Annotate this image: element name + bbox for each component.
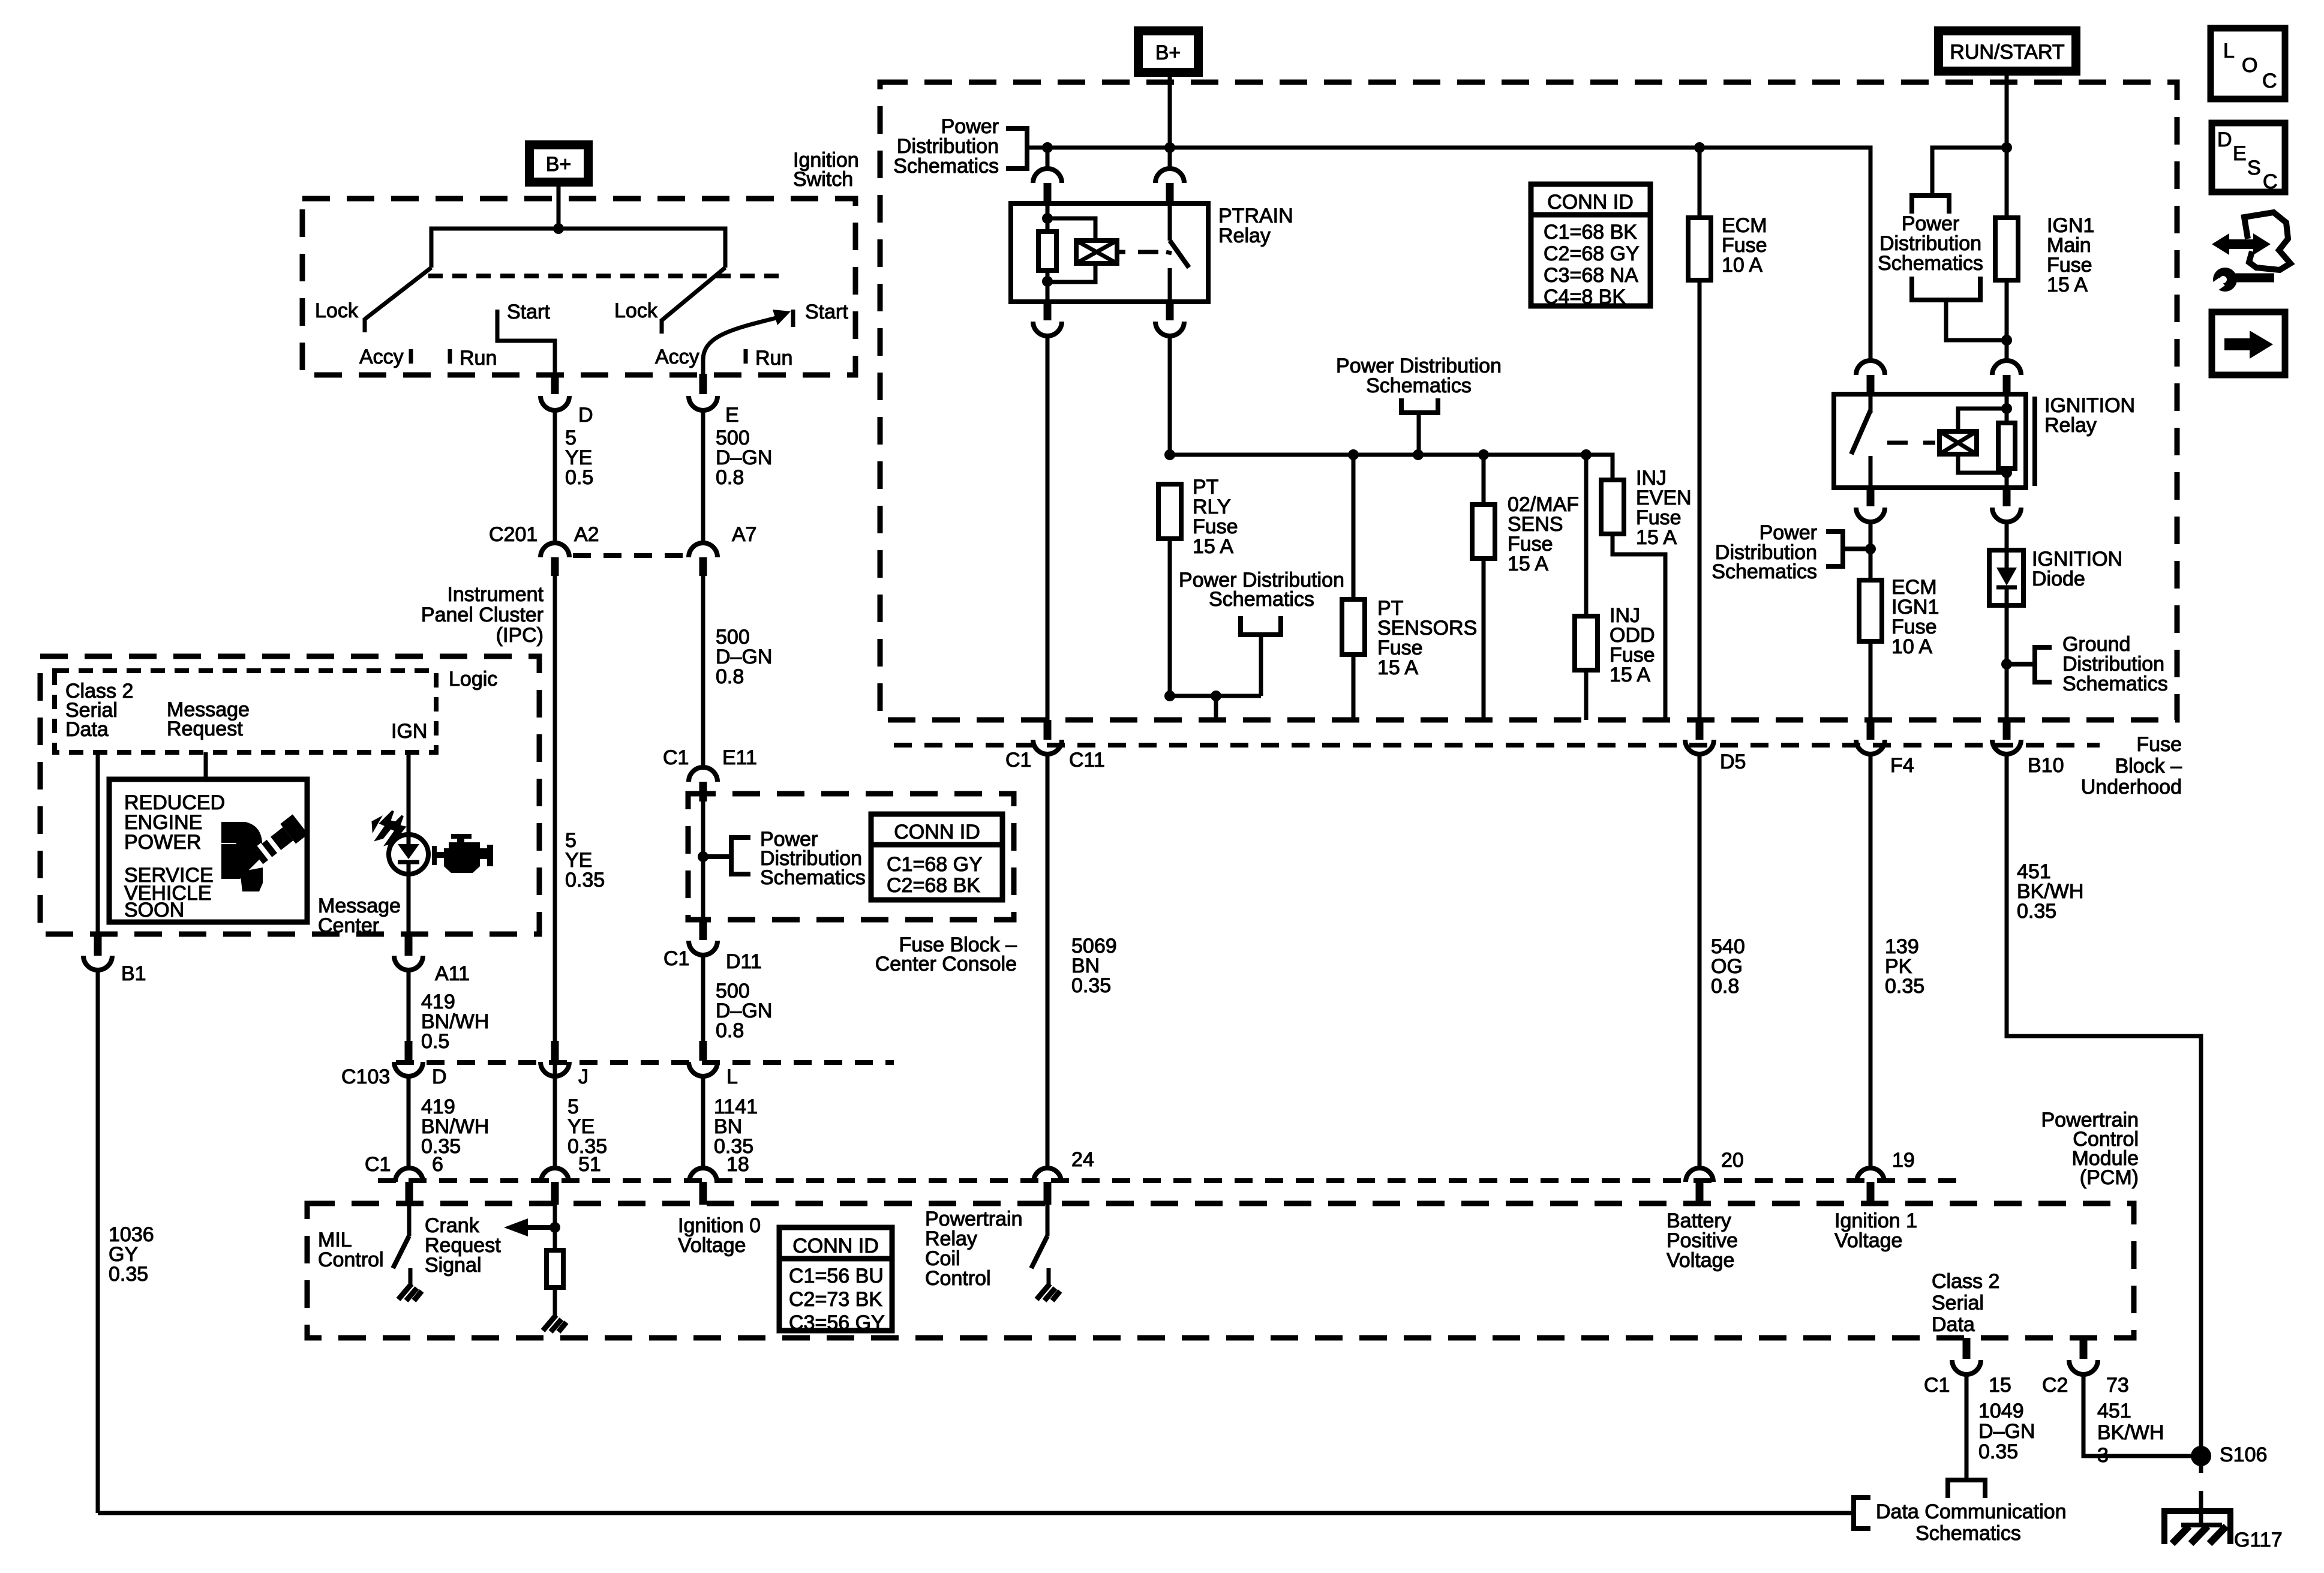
bus wire B+ feed: [1027, 148, 1870, 361]
PCM pin 15 stub: [1963, 1338, 1971, 1359]
powertrain relay coil control ground: [1047, 1268, 1051, 1285]
contact tick Accy left: [409, 349, 413, 364]
wire bus to PTRAIN switch pin: [1168, 148, 1172, 169]
svg-text:Control: Control: [318, 1248, 384, 1271]
svg-text:10 A: 10 A: [1722, 254, 1762, 277]
svg-text:0.8: 0.8: [716, 466, 744, 489]
svg-text:D11: D11: [726, 950, 762, 973]
svg-text:Underhood: Underhood: [2081, 776, 2182, 798]
wire D to C201 A2: [553, 410, 557, 544]
RUN/START power symbol box: [1934, 26, 2080, 76]
powertrain control module dashed box: [307, 1203, 2134, 1338]
svg-text:Data Communication: Data Communication: [1876, 1500, 2066, 1523]
svg-text:L: L: [726, 1065, 738, 1088]
contact tick Run right: [744, 349, 748, 364]
PTRAIN relay pin 86 stub: [1044, 183, 1052, 205]
svg-text:RUN/START: RUN/START: [1950, 41, 2064, 64]
pointer bracket below label to IGN1 wire: [1912, 277, 1980, 300]
connector row C103: [396, 1060, 894, 1065]
svg-text:Control: Control: [925, 1267, 991, 1290]
svg-text:L: L: [2223, 40, 2235, 62]
connector B10 stub: [2003, 720, 2011, 740]
svg-text:15 A: 15 A: [1636, 526, 1677, 549]
contact tick Lock right: [660, 319, 664, 334]
PCM pin 6 connector arc: [395, 1168, 423, 1182]
node junction at B+ feed: [553, 223, 564, 234]
svg-text:0.35: 0.35: [565, 869, 605, 891]
connector row fuse block underhood: [894, 743, 2100, 748]
svg-text:C2=68 BK: C2=68 BK: [887, 874, 980, 897]
IGNITION relay pin 87 stub: [1867, 488, 1875, 506]
pointer bracket (ECM IGN1): [1843, 547, 1870, 551]
switch wiper right (Lock position): [662, 268, 725, 320]
logic dashed box: [55, 671, 436, 752]
PTRAIN relay switch: [1168, 203, 1172, 241]
svg-text:0.5: 0.5: [421, 1030, 449, 1053]
svg-text:A7: A7: [732, 523, 757, 546]
connector arc terminal D: [541, 396, 569, 410]
svg-text:Accy: Accy: [359, 346, 404, 368]
fuse PT RLY 15A: [1158, 484, 1181, 539]
svg-text:C1: C1: [1005, 749, 1031, 772]
PTRAIN relay pin 86 connector arc: [1033, 169, 1062, 183]
wire pin 73 to S106: [2083, 1374, 2201, 1456]
terminal D stub: [551, 374, 559, 394]
wire D5 to PCM 20: [1698, 754, 1702, 1168]
C103 pin L arc: [689, 1062, 717, 1076]
terminal E stub: [699, 374, 707, 394]
fuse INJ ODD 15A: [1575, 616, 1598, 670]
svg-text:19: 19: [1892, 1149, 1915, 1172]
svg-text:15 A: 15 A: [1610, 664, 1650, 686]
B+ power symbol box (ignition switch feed): [525, 140, 593, 187]
svg-text:G117: G117: [2234, 1529, 2283, 1551]
svg-text:0.8: 0.8: [716, 1019, 744, 1042]
svg-text:B+: B+: [546, 153, 572, 176]
svg-text:24: 24: [1071, 1148, 1094, 1171]
svg-text:E: E: [725, 404, 739, 427]
fuse block center console dashed box: [688, 794, 1014, 920]
svg-text:BK/WH: BK/WH: [2097, 1421, 2164, 1444]
svg-text:0.35: 0.35: [1071, 974, 1111, 997]
svg-text:C: C: [2262, 70, 2277, 92]
connector stub D11: [699, 920, 707, 940]
IGNITION relay pin 30 stub: [1867, 375, 1875, 397]
IGNITION relay pin 87 connector arc: [1856, 508, 1885, 522]
svg-text:D: D: [2217, 128, 2232, 151]
wire E to C201 A7: [701, 410, 705, 544]
connector B10 arc: [1992, 740, 2021, 754]
svg-text:C103: C103: [341, 1065, 390, 1088]
wire feed bus inside switch: [431, 229, 725, 268]
PCM pin 6 stub: [406, 1182, 413, 1205]
node at B+ drop: [1164, 142, 1175, 153]
svg-text:51: 51: [578, 1153, 601, 1176]
contact tick Start right: [791, 310, 795, 327]
pointer bracket (ground distribution): [2007, 662, 2035, 667]
svg-text:0.35: 0.35: [1885, 975, 1924, 998]
wire message request to message center: [204, 752, 208, 779]
svg-text:C2: C2: [2042, 1374, 2068, 1397]
IGNITION relay pin 30 connector arc: [1856, 361, 1885, 375]
svg-text:POWER: POWER: [124, 831, 201, 854]
PTRAIN relay pin 87 stub: [1166, 302, 1174, 320]
svg-text:E: E: [2233, 142, 2247, 165]
PTRAIN relay coil: [1076, 241, 1117, 263]
wire ECM IGN1 fuse to F4: [1869, 641, 1873, 720]
wire PT RLY fuse lower: [1170, 539, 1261, 696]
svg-text:Schematics: Schematics: [1366, 374, 1472, 397]
svg-text:C: C: [2263, 170, 2278, 193]
MIL ground: [409, 1268, 413, 1285]
svg-text:B10: B10: [2028, 754, 2064, 777]
connector arc E11: [689, 767, 717, 782]
PTRAIN relay pin 30 stub: [1166, 183, 1174, 205]
connector stub E11: [699, 782, 707, 801]
PCM pin 51 stub: [551, 1182, 559, 1205]
connector C201 stub A2: [551, 557, 559, 576]
IPC pin B1 stub: [94, 934, 102, 956]
PTRAIN relay pin 85 stub: [1044, 302, 1052, 320]
node pointer stem: [1413, 449, 1424, 460]
PCM pin 20 stub: [1696, 1182, 1704, 1205]
PTRAIN relay pin 30 connector arc: [1155, 169, 1184, 183]
connector arc terminal E: [689, 396, 717, 410]
message center box: [109, 779, 307, 922]
connector C201 arc A7: [689, 543, 717, 557]
svg-text:Schematics: Schematics: [1209, 588, 1314, 611]
PCM pin 51 connector arc: [541, 1168, 569, 1182]
IGNITION relay pin 86 stub: [2003, 375, 2011, 397]
PCM pin 20 connector arc: [1686, 1168, 1713, 1182]
svg-text:Schematics: Schematics: [1915, 1522, 2021, 1545]
svg-text:15 A: 15 A: [1193, 535, 1233, 558]
svg-text:C3=56 GY: C3=56 GY: [789, 1311, 885, 1334]
svg-text:J: J: [578, 1065, 588, 1088]
IPC pin A11 connector arc: [394, 956, 423, 970]
wire IGN1 fuse to ignition relay: [2005, 280, 2009, 361]
wire F4 to PCM 19: [1869, 754, 1873, 1168]
PTRAIN relay resistor: [1038, 232, 1056, 271]
wire from Start contact to terminal D: [497, 327, 555, 375]
svg-text:C3=68 NA: C3=68 NA: [1544, 264, 1638, 287]
fuse IGN1 Main 15A: [1995, 218, 2018, 280]
wire A7 to E11: [701, 576, 705, 769]
fuse ECM 10A: [1688, 218, 1711, 280]
IGNITION relay switch: [1869, 394, 1873, 413]
svg-text:3: 3: [2097, 1444, 2109, 1467]
stub to fuse block edge: [1214, 696, 1218, 720]
svg-text:D: D: [432, 1065, 447, 1088]
svg-text:(PCM): (PCM): [2080, 1166, 2139, 1189]
splice S106: [2191, 1446, 2211, 1466]
svg-text:Fuse: Fuse: [2136, 733, 2182, 756]
node 02/MAF fuse: [1478, 449, 1489, 460]
svg-text:C2=68 GY: C2=68 GY: [1544, 242, 1640, 265]
node above ignition relay coil pin: [2001, 335, 2012, 346]
IGNITION relay pin 85 stub: [2003, 488, 2011, 506]
svg-text:0.35: 0.35: [109, 1263, 148, 1286]
svg-text:6: 6: [432, 1153, 443, 1176]
svg-text:SOON: SOON: [124, 899, 184, 921]
contact tick Start left: [496, 310, 500, 327]
PCM pin 18 stub: [699, 1182, 707, 1205]
instrument panel cluster dashed box: [40, 656, 539, 934]
IGNITION relay coil: [1939, 431, 1977, 454]
CONN ID table (underhood): [1531, 184, 1650, 308]
svg-text:C11: C11: [1069, 749, 1105, 772]
connector row PCM: [378, 1178, 1962, 1183]
wire INJ EVEN fuse jog: [1613, 534, 1665, 720]
svg-text:D–GN: D–GN: [1978, 1420, 2035, 1443]
crank request arrow: [526, 1225, 555, 1230]
wire D11 to C103 L: [701, 955, 705, 1043]
pointer bracket data communication: [1854, 1497, 1870, 1529]
IPC pin A11 stub: [405, 934, 413, 956]
wire A2 to IPC (5 YE): [553, 576, 557, 1166]
node INJ ODD fuse: [1581, 449, 1592, 460]
node at PTRAIN coil pin: [1042, 142, 1053, 153]
svg-text:CONN ID: CONN ID: [1547, 191, 1634, 214]
message center reduced-power icon: [221, 822, 262, 858]
svg-text:CONN ID: CONN ID: [894, 821, 980, 843]
svg-text:A11: A11: [435, 962, 470, 985]
contact tick Lock left: [363, 318, 367, 332]
connector F4 arc: [1856, 740, 1885, 754]
svg-text:Lock: Lock: [315, 299, 359, 322]
PCM pin 73 connector arc: [2069, 1360, 2098, 1374]
C103 pin L stub: [699, 1041, 707, 1061]
svg-text:IGN: IGN: [391, 720, 427, 743]
PCM pin 19 stub: [1867, 1182, 1875, 1205]
svg-text:15 A: 15 A: [1377, 656, 1418, 679]
svg-text:0.5: 0.5: [565, 466, 593, 489]
icon wiring repair (arrow, outline, wrench): [2208, 212, 2290, 294]
svg-text:C1: C1: [663, 947, 689, 970]
svg-text:C1: C1: [365, 1153, 391, 1176]
PCM pin 73 stub: [2080, 1338, 2088, 1359]
svg-text:S: S: [2247, 157, 2261, 179]
connector arc D11: [689, 941, 717, 955]
svg-text:Serial: Serial: [1932, 1292, 1984, 1314]
CONN ID table (center console): [871, 814, 1002, 900]
wire LED to A11: [407, 874, 411, 934]
svg-text:0.35: 0.35: [2017, 900, 2056, 923]
crank request resistor: [553, 1227, 557, 1250]
svg-text:CONN ID: CONN ID: [792, 1235, 879, 1257]
svg-text:O: O: [2242, 54, 2257, 77]
svg-text:S106: S106: [2220, 1443, 2267, 1466]
svg-text:Center Console: Center Console: [875, 953, 1017, 975]
wire A2 chain into pin 51: [553, 1166, 557, 1170]
svg-text:15 A: 15 A: [2047, 274, 2088, 296]
svg-text:F4: F4: [1890, 754, 1914, 777]
fuse PT SENSORS 15A: [1342, 599, 1365, 655]
svg-text:C4=8 BK: C4=8 BK: [1544, 286, 1626, 308]
fuse INJ EVEN 15A: [1601, 480, 1624, 534]
svg-text:Start: Start: [805, 301, 848, 323]
svg-text:Schematics: Schematics: [893, 155, 999, 178]
IPC pin B1 connector arc: [83, 956, 112, 970]
IGNITION relay pin 86 connector arc: [1992, 361, 2021, 375]
connector D5 arc: [1685, 740, 1714, 754]
wire B10 to splice S106: [2007, 754, 2201, 1473]
contact tick Run left: [448, 349, 452, 364]
wire C11 to PCM 24: [1046, 754, 1050, 1168]
wire S106 to ground: [2199, 1491, 2203, 1525]
switch wiper left (Lock position): [365, 268, 431, 319]
wire PT SENSORS fuse: [1352, 455, 1356, 599]
wire INJ ODD fuse: [1584, 455, 1589, 616]
svg-text:0.35: 0.35: [1978, 1440, 2018, 1463]
svg-text:Relay: Relay: [2044, 414, 2097, 437]
svg-text:0.8: 0.8: [1711, 975, 1739, 998]
svg-text:C1: C1: [663, 746, 689, 769]
fuse feed bus: [1170, 455, 1613, 481]
svg-text:Data: Data: [1932, 1313, 1975, 1336]
node junction for pointer: [698, 851, 708, 862]
ground G117: [2164, 1511, 2230, 1544]
pointer bracket (PT RLY): [1241, 616, 1281, 635]
wire C103 D to PCM pin 6: [407, 1076, 411, 1168]
IGNITION diode: [1989, 550, 2023, 605]
wire pin 15 class 2 serial data: [1965, 1374, 1969, 1480]
svg-text:Center: Center: [318, 914, 379, 937]
wire ignition relay to diode: [2005, 522, 2009, 550]
svg-text:10 A: 10 A: [1891, 635, 1932, 658]
svg-text:C1=68 GY: C1=68 GY: [887, 853, 983, 876]
PTRAIN relay pin 85 connector arc: [1033, 322, 1062, 336]
svg-text:A2: A2: [574, 523, 599, 546]
pointer bracket to fuse bus: [1401, 398, 1438, 413]
svg-text:15 A: 15 A: [1508, 553, 1548, 575]
svg-text:Start: Start: [507, 301, 550, 323]
svg-text:B+: B+: [1155, 41, 1181, 64]
svg-text:Switch: Switch: [793, 168, 853, 191]
wire diode to B10: [2005, 605, 2009, 720]
svg-text:Accy: Accy: [655, 346, 699, 368]
wire ignition relay to ECM IGN1 fuse: [1869, 522, 1873, 580]
svg-text:Schematics: Schematics: [1878, 252, 1983, 275]
node PT SENSORS fuse: [1348, 449, 1359, 460]
svg-text:18: 18: [726, 1153, 749, 1176]
ignition switch dashed box: [302, 199, 855, 375]
C103 pin J arc: [541, 1062, 569, 1076]
connector row C201: [573, 553, 687, 558]
pointer bracket to power distribution schematics: [703, 854, 731, 859]
svg-text:Lock: Lock: [614, 299, 658, 322]
wire ECM fuse down to D5: [1698, 148, 1702, 218]
IGNITION relay pin 85 connector arc: [1992, 508, 2021, 522]
fuse block underhood dashed box: [880, 82, 2177, 720]
svg-text:Instrument: Instrument: [447, 583, 544, 606]
svg-text:0.8: 0.8: [716, 665, 744, 688]
wire through center console block: [701, 801, 705, 920]
wire PTRAIN coil pin to C1/C11: [1046, 336, 1050, 720]
PTRAIN relay coil-switch link: [1117, 250, 1125, 254]
pointer from RUN/START wire to label (top): [2001, 142, 2012, 153]
fuse ECM IGN1 10A: [1859, 580, 1882, 641]
svg-text:Relay: Relay: [1218, 224, 1271, 247]
svg-text:Panel Cluster: Panel Cluster: [421, 604, 544, 626]
svg-text:C1: C1: [1924, 1374, 1950, 1397]
powertrain relay coil control switch: [1046, 1205, 1050, 1236]
svg-text:C1=56 BU: C1=56 BU: [789, 1265, 884, 1287]
svg-text:C2=73 BK: C2=73 BK: [789, 1288, 882, 1311]
arrowhead on Start curve: [773, 310, 791, 325]
svg-text:Logic: Logic: [449, 668, 497, 691]
wire PTRAIN switch pin to fuse bus: [1168, 336, 1172, 455]
wire curve from terminal E toward Start contact: [703, 317, 781, 375]
connector F4 stub: [1867, 720, 1875, 740]
svg-text:15: 15: [1989, 1374, 2011, 1397]
PCM pin 24 stub: [1044, 1182, 1052, 1205]
svg-text:Request: Request: [167, 718, 243, 740]
svg-text:Voltage: Voltage: [678, 1234, 746, 1257]
svg-text:451: 451: [2097, 1400, 2131, 1422]
svg-text:Voltage: Voltage: [1834, 1229, 1902, 1252]
off-page half box (data link): [1948, 1480, 1985, 1498]
svg-text:Class 2: Class 2: [1932, 1270, 1999, 1293]
connector C1/C11 stub: [1044, 720, 1052, 740]
connector C1/C11 arc: [1033, 740, 1062, 754]
C103 pin D arc: [394, 1062, 423, 1076]
wire bus to PTRAIN coil pin: [1046, 148, 1050, 169]
wire C103 L to PCM pin 18: [701, 1076, 705, 1168]
icon DESC box: [2212, 123, 2285, 193]
svg-text:Schematics: Schematics: [1712, 560, 1817, 583]
svg-text:Run: Run: [755, 347, 792, 370]
icon LOC box: [2211, 28, 2285, 99]
PCM pin 24 connector arc: [1034, 1168, 1061, 1182]
svg-text:Voltage: Voltage: [1667, 1249, 1734, 1272]
IGNITION relay resistor: [1998, 423, 2015, 469]
svg-text:Diode: Diode: [2032, 568, 2085, 590]
PTRAIN relay box: [1011, 203, 1208, 302]
svg-text:Schematics: Schematics: [2062, 673, 2168, 695]
svg-text:73: 73: [2106, 1374, 2129, 1397]
svg-text:C1=68 BK: C1=68 BK: [1544, 221, 1637, 244]
svg-text:Schematics: Schematics: [760, 866, 866, 889]
svg-text:(IPC): (IPC): [496, 624, 544, 647]
connector C201 stub A7: [699, 557, 707, 576]
svg-text:D: D: [578, 404, 593, 427]
wire RUN/START down: [2005, 76, 2009, 218]
PTRAIN relay pin 87 connector arc: [1155, 322, 1184, 336]
svg-text:20: 20: [1721, 1149, 1744, 1172]
svg-text:Data: Data: [65, 718, 109, 741]
indicator LED (MIL): [389, 834, 428, 874]
wire A11 to C103 D: [407, 970, 411, 1043]
PTRAIN relay coil branch wires: [1046, 203, 1050, 233]
icon forward arrow box: [2212, 312, 2285, 375]
svg-text:E11: E11: [722, 746, 757, 769]
IGNITION relay coil branch wires: [2005, 394, 2009, 424]
wire 02/MAF fuse: [1482, 455, 1486, 505]
B+ power symbol box (underhood feed): [1134, 26, 1203, 77]
svg-text:Signal: Signal: [425, 1254, 482, 1277]
engine icon: [432, 834, 493, 873]
wire B1 class 2 serial data down: [96, 752, 100, 934]
svg-text:C201: C201: [489, 523, 538, 546]
IGNITION relay coil-switch link: [1887, 441, 1908, 445]
label bracket IGNITION relay: [2032, 397, 2037, 486]
svg-text:1049: 1049: [1978, 1400, 2024, 1422]
node PT RLY fuse: [1164, 449, 1175, 460]
C103 pin D stub: [405, 1041, 413, 1061]
PCM pin 19 connector arc: [1857, 1168, 1884, 1182]
C103 pin J stub: [551, 1041, 559, 1061]
